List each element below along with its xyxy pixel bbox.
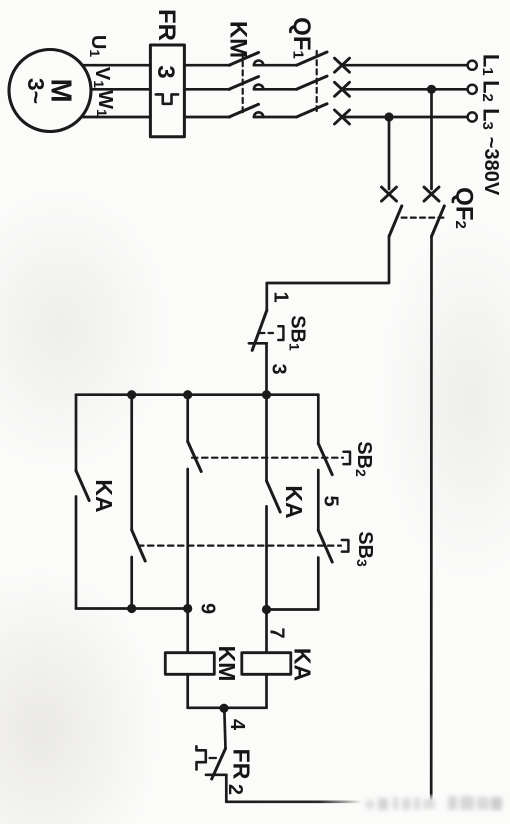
watermark smudge (366, 796, 502, 810)
wire SB1 to node 3 (265, 343, 268, 394)
wire SB2 to SB3 (317, 470, 320, 530)
svg-text:W1: W1 (94, 90, 116, 117)
svg-text:L3: L3 (479, 108, 504, 130)
QF2 X contact mark right (424, 187, 439, 201)
terminal L2 (468, 85, 477, 94)
QF2 right pole long wire down (430, 237, 433, 794)
wire V1 motor to FR (91, 88, 150, 91)
node 9 bus (76, 607, 188, 610)
branch B wire down (130, 395, 133, 530)
contact linked to SB3 blade (132, 530, 146, 561)
branch D wire to node 7 (265, 506, 268, 609)
svg-text:FR: FR (229, 749, 255, 780)
wire L2 tap down to QF2 (430, 89, 433, 189)
wire L3 tap down to QF2 (388, 117, 391, 189)
breaker QF2 blade right (432, 206, 445, 237)
SB1 actuator dashes (260, 332, 277, 334)
branch A wire down (75, 395, 78, 471)
svg-text:3~: 3~ (23, 78, 49, 104)
svg-text:L2: L2 (479, 80, 504, 102)
start button SB2 (NO) wire (317, 395, 320, 444)
svg-text:L1: L1 (479, 54, 504, 76)
terminal L3 (468, 112, 477, 121)
wires FR to KM contacts (184, 64, 230, 67)
terminal L1 (468, 61, 477, 70)
KM mechanical link (dashed) (242, 52, 244, 113)
SB2 blade (318, 444, 332, 475)
svg-text:KM: KM (225, 21, 252, 58)
SB2 button cap (344, 452, 351, 464)
node 3 bus (76, 393, 318, 396)
svg-text:7: 7 (266, 627, 288, 638)
relay contact KA (self-lock) blade (76, 471, 89, 501)
wire L2 to terminal (342, 88, 468, 91)
QF1 X contact mark pole 2 (335, 82, 350, 96)
junction dot node9 (183, 604, 192, 613)
branch A wire to node 9 bus (75, 497, 78, 609)
svg-text:SB3: SB3 (354, 531, 376, 567)
wire W1 motor to FR (81, 116, 150, 119)
QF1 X contact mark pole 1 (335, 58, 350, 72)
svg-text:KM: KM (214, 646, 240, 682)
bottom return rail (fading under watermark) (226, 800, 360, 803)
junction node on L2 (427, 85, 436, 94)
svg-text:3: 3 (268, 363, 290, 374)
FR fixed contact bar (206, 773, 226, 776)
SB3 button cap (342, 540, 349, 552)
contact linked to SB2 blade (188, 442, 202, 472)
branch C wire to node 9 bus (186, 469, 189, 609)
contactor KM main contact pole 3 (229, 104, 259, 117)
circuit breaker QF1 pole 3 (297, 104, 328, 117)
wire node7 to KA coil (265, 610, 268, 653)
svg-text:V1: V1 (91, 67, 113, 88)
breaker QF2 blade left (389, 206, 402, 237)
junction node 3 (262, 390, 271, 399)
wire SB3 down and left to node 7 (267, 558, 319, 610)
button SB3 blade (318, 530, 332, 562)
contactor KM main contact pole 2 (229, 77, 259, 90)
relay coil KA (242, 653, 291, 675)
node 4 bus (188, 706, 267, 709)
wire KA coil bottom (265, 674, 268, 708)
wire L1 to terminal (342, 64, 468, 67)
branch D wire down (265, 395, 268, 481)
svg-text:U1: U1 (87, 35, 109, 57)
junction bus dot B (127, 390, 136, 399)
circuit breaker QF1 pole 2 (297, 76, 328, 89)
SB1 button cap (278, 326, 283, 340)
junction bus dot C (183, 390, 192, 399)
svg-text:5: 5 (320, 495, 342, 506)
svg-text:3: 3 (152, 65, 179, 78)
QF2 mechanical link (dashed) (402, 217, 445, 219)
svg-text:SB2: SB2 (353, 441, 375, 477)
svg-text:FR: FR (153, 9, 180, 41)
svg-text:1: 1 (270, 291, 292, 302)
svg-text:SB1: SB1 (287, 315, 309, 351)
svg-text:KA: KA (91, 479, 117, 512)
svg-text:QF1: QF1 (288, 17, 315, 59)
junction node on L3 (384, 112, 393, 121)
wire FR down to bottom rail (225, 775, 228, 802)
svg-text:~380V: ~380V (480, 137, 502, 196)
contactor KM main contact pole 1 (229, 53, 259, 66)
stop button SB1 (NC) blade (252, 310, 267, 350)
wire QF2 left pole down and across to SB1 (267, 237, 389, 311)
svg-text:KA: KA (290, 648, 316, 681)
SB3 actuator dashed link (138, 544, 341, 546)
QF1 X contact mark pole 3 (335, 110, 350, 124)
junction dot node 4 (219, 704, 228, 713)
paper shading (0, 570, 160, 824)
SB1 fixed contact bar (249, 342, 267, 345)
wire KM coil bottom (186, 674, 189, 708)
QF2 X contact mark left (382, 187, 397, 201)
svg-text:KA: KA (281, 485, 307, 518)
FR actuator symbol (196, 746, 205, 769)
FR actuator dash (210, 757, 217, 759)
QF2 right pole wire bottom fade (430, 793, 433, 800)
wire node 4 to FR contact (224, 708, 225, 748)
relay contact KA 2 blade (267, 481, 281, 512)
svg-text:4: 4 (226, 719, 248, 731)
thermal relay FR contact (NC) blade (212, 749, 226, 780)
motor M 3~ (9, 50, 91, 132)
QF1 mechanical link (dashed) (316, 51, 318, 111)
contactor coil KM (165, 653, 214, 675)
wire node9 to KM coil (186, 609, 189, 653)
junction dot node9 left (127, 604, 136, 613)
branch C wire down (186, 395, 189, 442)
branch B wire to node 9 bus (130, 557, 133, 609)
circuit breaker QF1 pole 1 (297, 52, 328, 65)
wire U1 motor to FR (82, 64, 150, 67)
FR heater element symbol (156, 94, 178, 103)
junction dot node 7 (262, 605, 271, 614)
svg-text:9: 9 (197, 603, 219, 614)
SB2 actuator dashed link (192, 457, 343, 459)
thermal relay FR heater box (150, 45, 184, 137)
wire L3 to terminal (342, 116, 468, 119)
